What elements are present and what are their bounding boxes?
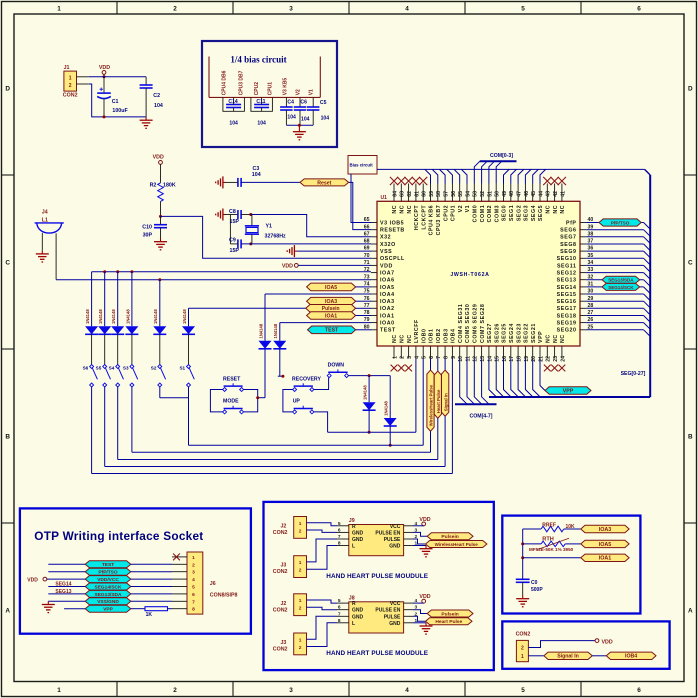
svg-text:SEG27: SEG27 [487,323,493,343]
svg-text:S3: S3 [123,365,129,370]
svg-text:6: 6 [637,687,641,694]
svg-text:SEG19: SEG19 [557,321,577,327]
svg-text:15: 15 [495,356,501,362]
svg-text:SEG2: SEG2 [516,205,522,221]
svg-text:43: 43 [546,191,552,197]
svg-text:VCC: VCC [390,524,401,530]
svg-text:C9: C9 [229,238,236,244]
svg-text:104: 104 [257,121,266,127]
svg-text:GND: GND [352,608,364,614]
svg-text:CON2: CON2 [273,530,288,536]
svg-text:41: 41 [560,191,566,197]
svg-text:SEG26: SEG26 [494,323,500,343]
svg-text:4: 4 [414,356,420,359]
svg-text:1N4148: 1N4148 [273,323,278,338]
svg-text:66: 66 [364,224,370,230]
svg-text:32768Hz: 32768Hz [265,233,287,239]
svg-text:IOA2: IOA2 [380,306,395,312]
svg-text:11: 11 [465,356,471,362]
svg-text:SEG14: SEG14 [557,285,577,291]
svg-text:1N4148: 1N4148 [182,309,187,324]
svg-text:CPU2: CPU2 [254,82,260,96]
svg-text:104: 104 [229,121,238,127]
svg-text:2: 2 [299,568,302,574]
svg-text:UP: UP [293,399,301,405]
svg-text:58: 58 [436,191,442,197]
svg-text:SEG16: SEG16 [557,299,577,305]
svg-text:VDD: VDD [27,577,38,583]
svg-text:SEG5: SEG5 [538,205,544,221]
svg-text:PfP/TSO: PfP/TSO [611,220,630,225]
svg-text:2: 2 [173,5,177,12]
svg-text:CON2: CON2 [273,647,288,653]
svg-text:SEG4: SEG4 [531,205,537,221]
svg-text:CPU3 KB7: CPU3 KB7 [436,205,442,236]
svg-text:3: 3 [289,687,293,694]
svg-text:J2: J2 [280,601,286,607]
svg-text:VDD/VCC: VDD/VCC [97,577,119,583]
svg-text:Bias circuit: Bias circuit [350,163,374,168]
svg-text:COM2: COM2 [487,205,493,223]
svg-text:NC: NC [400,205,406,214]
svg-text:MF52E-50K 1% 3950: MF52E-50K 1% 3950 [529,547,574,552]
svg-text:A: A [688,607,693,614]
svg-text:1N4148: 1N4148 [363,385,368,400]
svg-text:LCKCPT: LCKCPT [421,205,427,230]
svg-text:1N4148: 1N4148 [153,309,158,324]
svg-text:SEG10: SEG10 [557,256,577,262]
svg-text:VDD: VDD [380,263,393,269]
svg-text:57: 57 [444,191,450,197]
svg-text:59: 59 [429,191,435,197]
svg-text:IOA1: IOA1 [599,556,612,562]
svg-text:SEG24: SEG24 [509,323,515,343]
svg-text:104: 104 [287,115,296,121]
svg-text:NC: NC [407,334,413,343]
svg-text:1N4148: 1N4148 [111,309,116,324]
svg-text:COM5 SEG30: COM5 SEG30 [465,304,471,343]
svg-text:1: 1 [57,5,61,12]
svg-text:21: 21 [538,356,544,362]
svg-text:RESETB: RESETB [380,228,405,234]
svg-text:79: 79 [364,317,370,323]
svg-text:SEG3: SEG3 [524,205,530,221]
svg-text:64: 64 [392,191,398,197]
svg-text:C10: C10 [142,224,152,230]
svg-text:NC: NC [546,334,552,343]
svg-text:C6: C6 [300,99,307,105]
svg-text:J1: J1 [64,65,70,71]
svg-text:CPU4 KB6: CPU4 KB6 [429,205,435,236]
svg-text:IOA1: IOA1 [380,313,395,319]
svg-text:5: 5 [338,598,341,604]
svg-text:5: 5 [521,687,525,694]
svg-text:C: C [5,259,10,266]
svg-text:GND: GND [352,530,364,536]
svg-text:TEST: TEST [102,562,114,568]
svg-text:45: 45 [531,191,537,197]
svg-text:19: 19 [524,356,530,362]
svg-text:J3: J3 [280,563,286,569]
svg-text:J4: J4 [42,210,48,216]
svg-text:J2: J2 [280,524,286,530]
svg-text:PfP/TSO: PfP/TSO [98,570,117,576]
svg-text:J3: J3 [280,640,286,646]
svg-text:4: 4 [405,5,409,12]
svg-text:2: 2 [521,646,524,652]
svg-text:6: 6 [192,592,195,598]
svg-text:S6: S6 [83,365,89,370]
svg-text:Pulsein: Pulsein [441,611,458,617]
svg-text:6: 6 [338,605,341,611]
svg-text:5: 5 [338,521,341,527]
svg-text:PULSE EN: PULSE EN [375,530,400,536]
svg-text:18: 18 [517,356,523,362]
svg-text:30P: 30P [143,233,153,239]
svg-text:2: 2 [299,528,302,534]
svg-text:CPU1: CPU1 [268,82,274,96]
svg-text:69: 69 [364,246,370,252]
svg-text:SEG25: SEG25 [502,323,508,343]
svg-text:67: 67 [364,231,370,237]
svg-text:7: 7 [436,356,442,359]
svg-text:GND: GND [352,614,364,620]
svg-text:VSS/GND: VSS/GND [97,599,119,605]
svg-text:Reset: Reset [317,180,331,186]
svg-text:2: 2 [173,687,177,694]
svg-text:IOA7: IOA7 [380,271,395,277]
svg-text:52: 52 [480,191,486,197]
svg-text:R: R [352,524,356,530]
svg-text:70: 70 [364,253,370,259]
svg-text:Heart Pulse: Heart Pulse [436,389,441,413]
svg-text:54: 54 [465,191,471,197]
svg-text:8: 8 [192,607,195,613]
svg-text:1N4148: 1N4148 [384,400,389,415]
svg-text:GND: GND [389,621,401,627]
svg-text:NC: NC [553,205,559,214]
svg-text:LVRCFF: LVRCFF [414,319,420,343]
svg-text:PULSE: PULSE [384,537,401,543]
svg-text:COM[0-3]: COM[0-3] [490,153,513,159]
svg-text:SEG14/SCK: SEG14/SCK [95,584,122,590]
svg-text:1K: 1K [146,612,153,618]
svg-text:CPU4 DB6: CPU4 DB6 [222,70,228,95]
svg-text:68: 68 [364,239,370,245]
svg-text:C14: C14 [228,99,238,105]
svg-text:VPP: VPP [103,607,113,613]
svg-text:SEG[0-27]: SEG[0-27] [621,371,646,377]
svg-text:SEG13/SDA: SEG13/SDA [608,278,634,283]
svg-text:7: 7 [192,599,195,605]
svg-text:IOB1: IOB1 [429,328,435,343]
svg-text:SEG15: SEG15 [557,292,577,298]
svg-text:NC: NC [392,205,398,214]
svg-text:CON2: CON2 [273,569,288,575]
svg-text:U1: U1 [381,195,388,201]
svg-text:5: 5 [521,5,525,12]
svg-text:62: 62 [407,191,413,197]
svg-text:GND: GND [389,544,401,550]
svg-text:IOA5: IOA5 [380,285,395,291]
svg-text:HAND HEART PULSE MOUDULE: HAND HEART PULSE MOUDULE [326,573,428,580]
svg-text:3: 3 [192,570,195,576]
svg-text:72: 72 [364,267,370,273]
svg-text:49: 49 [502,191,508,197]
svg-text:V1: V1 [309,89,315,95]
svg-text:C5: C5 [320,100,327,106]
svg-text:73: 73 [364,274,370,280]
svg-text:CON2: CON2 [516,631,531,637]
svg-text:Heart Pulse: Heart Pulse [435,619,462,625]
svg-text:42: 42 [553,191,559,197]
svg-text:17: 17 [509,356,515,362]
svg-text:2: 2 [299,606,302,612]
svg-text:C4: C4 [287,99,294,105]
svg-text:IOA5: IOA5 [325,285,337,291]
svg-text:SEG0: SEG0 [502,205,508,221]
svg-text:IOA5: IOA5 [599,542,612,548]
svg-text:VCC: VCC [390,601,401,607]
svg-text:10K: 10K [566,524,576,530]
svg-text:IOB4: IOB4 [625,654,637,660]
svg-text:IOA4: IOA4 [380,292,395,298]
svg-text:B: B [688,433,693,440]
svg-text:VDD: VDD [153,155,164,161]
svg-text:COM0: COM0 [473,205,479,223]
svg-text:IOA3: IOA3 [380,299,395,305]
svg-text:VDD: VDD [282,263,293,269]
svg-text:Pulsein: Pulsein [441,534,458,540]
svg-text:COM3: COM3 [494,205,500,223]
svg-text:NC: NC [553,334,559,343]
svg-text:7: 7 [338,534,341,540]
svg-text:CON2: CON2 [273,607,288,613]
svg-text:TEST: TEST [380,328,396,334]
svg-text:15P: 15P [230,219,240,225]
svg-text:D: D [688,85,693,92]
svg-text:8: 8 [338,618,341,624]
svg-text:44: 44 [538,191,544,197]
svg-text:SEG21: SEG21 [531,323,537,343]
svg-text:23: 23 [553,356,559,362]
svg-text:COM6 SEG29: COM6 SEG29 [473,304,479,343]
svg-text:NC: NC [560,334,566,343]
svg-text:JWSH-T062A: JWSH-T062A [450,272,489,278]
svg-text:1: 1 [392,356,398,359]
svg-text:13: 13 [480,356,486,362]
svg-text:IOB4: IOB4 [451,328,457,343]
svg-text:PULSE: PULSE [384,614,401,620]
svg-text:55: 55 [458,191,464,197]
svg-text:V3 KB5: V3 KB5 [283,78,289,96]
svg-text:14: 14 [487,356,493,362]
svg-text:180K: 180K [163,182,176,188]
svg-text:DOWN: DOWN [328,362,345,368]
svg-text:71: 71 [364,260,370,266]
svg-text:S2: S2 [151,365,157,370]
svg-text:8: 8 [444,356,450,359]
svg-text:COM[4-7]: COM[4-7] [469,414,492,420]
svg-text:2: 2 [400,356,406,359]
svg-text:3: 3 [407,356,413,359]
svg-text:V2: V2 [296,89,302,95]
svg-text:SEG13: SEG13 [55,589,71,595]
svg-text:1N4148: 1N4148 [125,309,130,324]
svg-text:Signal In: Signal In [557,654,579,660]
svg-text:R2: R2 [150,182,157,188]
svg-text:1: 1 [299,560,302,566]
svg-text:51: 51 [487,191,493,197]
svg-text:IOA6: IOA6 [380,278,395,284]
svg-text:22: 22 [546,356,552,362]
svg-text:50: 50 [495,191,501,197]
svg-text:SEG14/SCK: SEG14/SCK [608,285,634,290]
svg-text:NC: NC [392,334,398,343]
svg-text:1N4148: 1N4148 [258,323,263,338]
svg-text:6: 6 [338,527,341,533]
svg-text:12: 12 [473,356,479,362]
svg-text:PULSE EN: PULSE EN [375,608,400,614]
svg-text:4: 4 [192,577,195,583]
svg-text:65: 65 [364,217,370,223]
svg-text:D: D [5,85,10,92]
svg-text:1: 1 [299,637,302,643]
svg-text:CON8/SIP8: CON8/SIP8 [210,593,238,599]
svg-text:COM4 SEG31: COM4 SEG31 [458,304,464,343]
svg-text:GND: GND [352,537,364,543]
svg-text:1: 1 [57,687,61,694]
svg-text:63: 63 [400,191,406,197]
svg-text:V3 IOB5: V3 IOB5 [380,220,404,226]
svg-text:OTP Writing interface Socket: OTP Writing interface Socket [34,529,203,543]
svg-text:S1: S1 [179,365,185,370]
svg-text:B: B [5,433,10,440]
svg-text:IOB3: IOB3 [443,328,449,343]
svg-text:X32: X32 [380,235,391,241]
svg-text:SEG20: SEG20 [557,328,577,334]
svg-text:NC: NC [546,205,552,214]
svg-text:SEG12: SEG12 [557,271,577,277]
svg-text:J6: J6 [210,581,216,587]
svg-text:NC: NC [407,205,413,214]
svg-text:1: 1 [521,654,524,660]
svg-text:A: A [5,607,10,614]
svg-text:SEG1: SEG1 [509,205,515,221]
svg-text:VSS: VSS [380,249,392,255]
svg-text:SEG8: SEG8 [560,242,576,248]
svg-text:Signal In: Signal In [443,393,448,411]
svg-text:1: 1 [192,555,195,561]
svg-text:S4: S4 [109,365,115,370]
svg-text:16: 16 [502,356,508,362]
svg-text:VPP: VPP [538,331,544,343]
svg-text:2: 2 [192,562,195,568]
svg-text:1N4148: 1N4148 [85,309,90,324]
svg-text:IOA0: IOA0 [380,321,395,327]
svg-text:COM7 SEG28: COM7 SEG28 [480,304,486,343]
svg-text:X32O: X32O [380,242,396,248]
svg-text:NC: NC [400,334,406,343]
svg-text:C11: C11 [256,99,265,105]
svg-text:IOB2: IOB2 [436,328,442,343]
svg-text:47: 47 [517,191,523,197]
svg-text:RTH: RTH [542,537,554,543]
svg-text:100uF: 100uF [112,108,128,114]
svg-text:S5: S5 [96,365,102,370]
svg-text:C1: C1 [112,99,119,105]
svg-text:1: 1 [69,75,72,81]
svg-text:6: 6 [429,356,435,359]
svg-text:8: 8 [338,541,341,547]
svg-text:53: 53 [473,191,479,197]
svg-text:SEG23: SEG23 [516,323,522,343]
svg-text:48: 48 [509,191,515,197]
svg-text:OSCPLL: OSCPLL [380,256,405,262]
svg-text:7: 7 [338,611,341,617]
svg-text:46: 46 [524,191,530,197]
svg-text:RECOVERY: RECOVERY [292,376,321,382]
svg-text:C0: C0 [531,580,538,586]
svg-text:SEG6: SEG6 [560,228,576,234]
svg-text:CPU3 DB7: CPU3 DB7 [239,70,245,95]
svg-text:CON2: CON2 [63,93,78,99]
svg-text:TEST: TEST [325,328,339,334]
svg-text:1: 1 [299,598,302,604]
svg-text:SEG22: SEG22 [524,323,530,343]
svg-text:20: 20 [531,356,537,362]
svg-text:IOB0: IOB0 [421,328,427,343]
svg-text:C2: C2 [153,93,160,99]
svg-text:Y1: Y1 [266,223,273,229]
svg-text:104: 104 [321,116,330,122]
svg-text:SEG14: SEG14 [55,581,71,587]
svg-text:75: 75 [364,289,370,295]
svg-text:HAND HEART PULSE MOUDULE: HAND HEART PULSE MOUDULE [326,650,428,657]
svg-text:V2: V2 [458,205,464,213]
svg-text:IOA1: IOA1 [325,313,337,319]
svg-text:HCKCPT: HCKCPT [414,205,420,231]
svg-text:1/4 bias circuit: 1/4 bias circuit [230,55,286,65]
svg-text:SEG17: SEG17 [557,306,577,312]
svg-text:60: 60 [422,191,428,197]
svg-text:CPU1: CPU1 [451,205,457,221]
svg-text:RREF: RREF [542,522,556,528]
svg-text:1N4148: 1N4148 [98,309,103,324]
svg-text:SEG7: SEG7 [560,235,576,241]
svg-text:SEG11: SEG11 [557,263,577,269]
svg-text:VDD: VDD [602,640,613,646]
svg-text:CPU2: CPU2 [443,205,449,221]
svg-text:2: 2 [299,645,302,651]
svg-text:61: 61 [414,191,420,197]
svg-text:SEG18: SEG18 [557,313,577,319]
svg-text:104: 104 [301,116,310,122]
svg-text:SEG13: SEG13 [557,278,577,284]
svg-text:SEG9: SEG9 [560,249,576,255]
svg-text:104: 104 [252,172,261,178]
svg-text:IOA3: IOA3 [599,527,612,533]
svg-text:COM1: COM1 [480,205,486,223]
svg-text:WirelessHeart Pulse: WirelessHeart Pulse [435,542,479,547]
svg-text:L: L [352,621,355,627]
svg-text:WirelessHeart Pulse: WirelessHeart Pulse [429,384,434,426]
svg-text:PfP: PfP [566,220,576,226]
svg-text:4: 4 [405,687,409,694]
svg-text:10: 10 [458,356,464,362]
svg-text:RESET: RESET [223,376,241,382]
svg-text:9: 9 [451,356,457,359]
